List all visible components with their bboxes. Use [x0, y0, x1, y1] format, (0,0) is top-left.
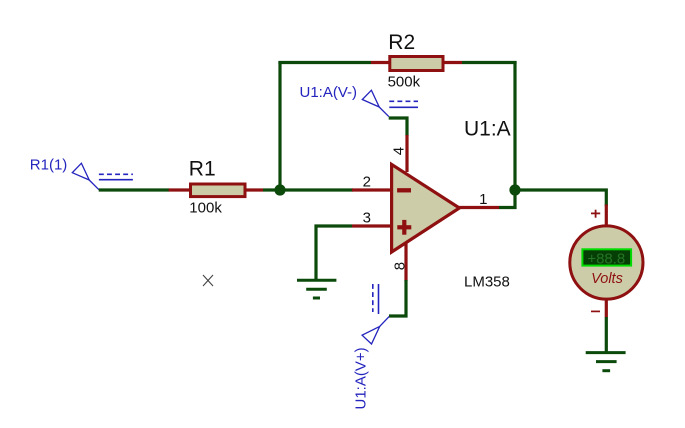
ground (pin 3) — [297, 280, 336, 298]
voltage probe R1(1) — [72, 163, 133, 190]
svg-text:100k: 100k — [189, 200, 222, 217]
svg-text:U1:A(V+): U1:A(V+) — [353, 347, 370, 409]
wire R1 to op-amp input — [263, 188, 353, 191]
wire feedback top left — [278, 61, 371, 64]
junction node input — [274, 184, 285, 195]
svg-text:Volts: Volts — [591, 271, 623, 287]
non-inverting input plus symbol — [397, 220, 411, 235]
svg-text:+88.8: +88.8 — [587, 251, 625, 268]
svg-text:4: 4 — [391, 147, 408, 155]
wire voltmeter to ground — [605, 317, 608, 352]
svg-text:R1: R1 — [189, 158, 216, 181]
svg-text:500k: 500k — [388, 74, 421, 91]
op-amp pin 3 lead — [352, 224, 392, 227]
svg-text:3: 3 — [363, 210, 371, 227]
wire probe V- to pin 4 — [389, 118, 407, 136]
wire feedback right vertical — [513, 61, 516, 190]
op-amp U1:A — [392, 164, 460, 252]
svg-text:8: 8 — [392, 262, 409, 270]
svg-text:R2: R2 — [388, 31, 415, 54]
voltmeter plus lead — [605, 205, 608, 228]
voltmeter minus lead — [605, 298, 608, 318]
voltmeter display — [582, 249, 631, 265]
voltage probe U1:A(V+) — [362, 284, 389, 344]
svg-text:1: 1 — [479, 191, 487, 208]
resistor R2 — [390, 57, 443, 71]
svg-text:U1:A(V-): U1:A(V-) — [300, 84, 358, 101]
minus sign — [591, 310, 600, 312]
origin marker — [203, 275, 213, 286]
resistor R2 right lead — [443, 61, 462, 64]
wire output to junction — [499, 190, 515, 208]
resistor R1 left lead — [169, 188, 191, 191]
wire feedback top right — [462, 61, 517, 64]
svg-text:LM358: LM358 — [464, 273, 510, 290]
plus sign — [591, 210, 600, 218]
junction node output — [509, 184, 520, 195]
wire feedback vertical left — [278, 61, 281, 190]
wire input to R1 — [99, 188, 169, 191]
op-amp pin 2 lead — [352, 188, 392, 191]
op-amp pin 8 lead — [404, 243, 407, 281]
voltmeter body — [570, 226, 643, 299]
resistor R1 right lead — [245, 188, 263, 191]
svg-text:2: 2 — [363, 173, 371, 190]
ground (voltmeter) — [586, 353, 626, 371]
op-amp output lead pin 1 — [458, 206, 499, 209]
voltage probe U1:A(V-) — [362, 90, 418, 116]
op-amp pin 4 lead — [405, 135, 408, 172]
resistor R2 left lead — [371, 61, 391, 64]
svg-text:R1(1): R1(1) — [30, 157, 68, 174]
svg-text:U1:A: U1:A — [464, 118, 511, 141]
resistor R1 — [191, 184, 246, 197]
inverting input minus symbol — [397, 188, 411, 192]
wire pin 8 to probe V+ — [389, 280, 406, 316]
wire pin 3 to ground — [316, 226, 352, 279]
wire junction to voltmeter — [515, 190, 606, 206]
